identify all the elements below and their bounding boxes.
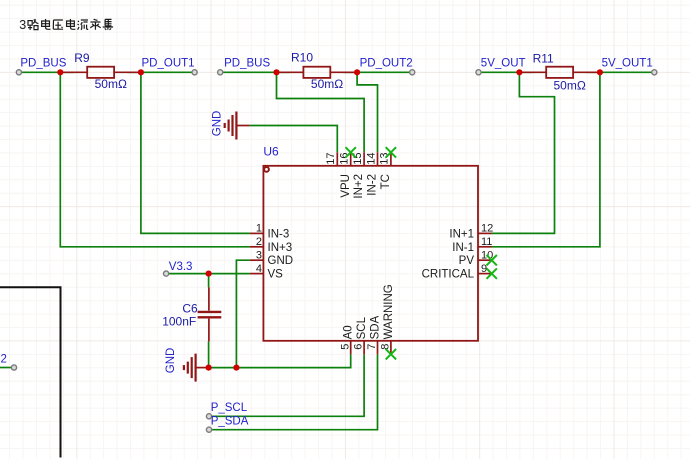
resistor R9 body	[87, 67, 114, 78]
U6 pin 13 (top)	[390, 152, 392, 166]
title char YA	[53, 20, 63, 29]
net port pin 5V_OUT	[476, 70, 481, 75]
svg-text:IN+2: IN+2	[353, 174, 365, 199]
U6 pin 3 GND (left)	[250, 259, 264, 261]
wire PD_BUS to R9 left	[19, 71, 74, 73]
svg-text:50mΩ: 50mΩ	[95, 77, 127, 91]
wire C6 bottom to ground rail	[208, 341, 210, 367]
svg-text:IN-2: IN-2	[367, 174, 379, 196]
svg-text:3: 3	[256, 249, 262, 261]
U6 pin 15 IN-2 (top)	[363, 152, 365, 166]
svg-text:GND: GND	[268, 255, 294, 267]
svg-text:12: 12	[481, 223, 493, 235]
wire PD_OUT1 down to U6 pin 1 IN-3	[141, 72, 250, 233]
wire PD_BUS down to U6 pin 2 IN+3	[60, 72, 250, 247]
resistor R10 leads	[277, 71, 358, 73]
wire partial net at left edge	[0, 367, 12, 369]
svg-text:2: 2	[256, 236, 262, 248]
wire R9 right to PD_OUT1	[128, 71, 195, 73]
U6 pin 8 WARNING (bottom)	[390, 341, 392, 355]
wire P_SDA to U6 pin 7 SDA	[209, 354, 378, 429]
svg-text:5V_OUT: 5V_OUT	[481, 58, 526, 70]
svg-text:IN-1: IN-1	[452, 242, 474, 254]
svg-text:WARNING: WARNING	[383, 284, 395, 339]
svg-text:R11: R11	[533, 51, 554, 65]
no-connect X on pin 13	[386, 147, 396, 157]
no-connect X on pin 9 CRITICAL	[487, 268, 497, 278]
net port pin 5V_OUT1	[652, 70, 657, 75]
ground symbol GND top	[225, 112, 250, 140]
U6 pin 12 IN+1 (right)	[478, 232, 492, 234]
junction PD_OUT1 / R9	[138, 69, 144, 75]
svg-text:SDA: SDA	[369, 315, 381, 339]
svg-text:PD_BUS: PD_BUS	[224, 58, 270, 70]
wire V3.3 to U6 pin 4 VS	[166, 273, 250, 275]
junction GND rail / pin3	[233, 365, 239, 371]
title char JI	[103, 19, 113, 29]
U6 pin 6 SCL (bottom)	[363, 341, 365, 355]
svg-text:P_SCL: P_SCL	[211, 402, 248, 414]
net port pin PD_OUT1	[192, 70, 197, 75]
junction GND rail / C6	[206, 365, 212, 371]
svg-text:3: 3	[19, 18, 26, 32]
svg-text:U6: U6	[263, 144, 279, 158]
title char CAI	[90, 19, 100, 30]
ground symbol GND bottom	[184, 354, 209, 382]
junction 5V_OUT / R11	[516, 69, 522, 75]
wire ground rail to U6 pin 5 A0	[209, 354, 351, 367]
capacitor C6	[198, 287, 222, 341]
svg-text:IN+1: IN+1	[449, 228, 474, 240]
svg-text:5V_OUT1: 5V_OUT1	[602, 58, 653, 70]
U6 pin 17 VPU (top)	[336, 152, 338, 166]
net port pin PD_OUT2	[410, 70, 415, 75]
svg-text:11: 11	[481, 236, 492, 248]
wire R10 right junction to U6 pin 14 TC	[357, 72, 377, 152]
U6 pin-1 indicator circle	[264, 167, 269, 172]
wire PD_BUS2 to R10 left	[220, 71, 290, 73]
svg-text:14: 14	[365, 153, 377, 165]
op-amp/IC U6 INA3221 body	[263, 166, 478, 341]
net port pin P_SCL	[206, 414, 211, 419]
title char LU	[28, 20, 38, 30]
svg-text:50mΩ: 50mΩ	[554, 78, 586, 92]
resistor R9 leads	[60, 71, 141, 73]
svg-text:6: 6	[353, 344, 365, 350]
U6 pin 16 IN+2 (top)	[350, 152, 352, 166]
no-connect X on pin 10 PV	[487, 255, 497, 265]
no-connect X on pin 8 WARNING	[386, 349, 396, 359]
wire GND to U6 pin 17 VPU	[249, 126, 337, 153]
U6 pin 1 IN-3 (left)	[250, 232, 264, 234]
title char DIAN2	[67, 19, 76, 29]
svg-text:1: 1	[256, 223, 262, 235]
U6 pin 11 IN-1 (right)	[478, 246, 492, 248]
U6 pin 7 SDA (bottom)	[377, 341, 379, 355]
junction V3.3 / C6	[206, 271, 212, 277]
wire V3.3 rail to C6 top	[208, 274, 210, 288]
wire 5V_OUT down to U6 pin 12 IN+1	[492, 72, 555, 233]
svg-text:CRITICAL: CRITICAL	[422, 269, 475, 281]
resistor R10 body	[303, 67, 330, 78]
svg-text:4: 4	[256, 263, 262, 275]
svg-text:PD_OUT1: PD_OUT1	[142, 58, 195, 70]
junction 5V_OUT1 / R11	[597, 69, 603, 75]
svg-text:VS: VS	[268, 269, 284, 281]
net port pin PD_BUS	[16, 70, 21, 75]
net port pin P_SDA	[206, 427, 211, 432]
svg-text:C6: C6	[182, 301, 198, 315]
svg-text:50mΩ: 50mΩ	[311, 77, 343, 91]
svg-text:GND: GND	[212, 111, 224, 137]
svg-text:2: 2	[1, 353, 7, 365]
U6 pin 10 PV (right)	[478, 259, 492, 261]
net port pin V3.3	[164, 271, 169, 276]
net port pin PD_BUS 2nd	[218, 70, 223, 75]
svg-text:100nF: 100nF	[162, 314, 196, 328]
svg-text:PD_BUS: PD_BUS	[20, 58, 66, 70]
U6 pin 9 CRITICAL (right)	[478, 273, 492, 275]
junction PD_OUT2 / R10	[354, 69, 360, 75]
wire 5V_OUT1 down to U6 pin 11 IN-1	[492, 72, 600, 247]
U6 pin 4 VS (left)	[250, 273, 264, 275]
U6 pin 2 IN+3 (left)	[250, 246, 264, 248]
svg-text:8: 8	[380, 344, 392, 350]
svg-text:7: 7	[366, 344, 378, 350]
svg-text:P_SDA: P_SDA	[211, 415, 249, 427]
no-connect X on pin 16 IN+2	[346, 147, 356, 157]
wire P_SCL to U6 pin 6 SCL	[209, 354, 364, 416]
wire U6 pin 3 GND down to ground rail	[236, 260, 250, 367]
svg-text:PV: PV	[459, 255, 475, 267]
wire R10 left junction to U6 pin 15 IN-2	[277, 72, 365, 152]
svg-text:GND: GND	[165, 348, 177, 374]
svg-text:A0: A0	[343, 325, 355, 339]
svg-text:V3.3: V3.3	[169, 261, 193, 273]
U6 pin 14 TC (top)	[377, 152, 379, 166]
svg-text:TC: TC	[380, 174, 392, 189]
wire 5V_OUT to R11 left	[479, 71, 533, 73]
resistor R11 leads	[519, 71, 600, 73]
sheet border rectangle corner	[0, 287, 61, 457]
title char LIU	[78, 20, 89, 30]
U6 pin 5 A0 (bottom)	[350, 341, 352, 355]
svg-text:5: 5	[339, 344, 351, 350]
svg-text:R9: R9	[74, 51, 90, 65]
wire R10 right to PD_OUT2	[344, 71, 413, 73]
svg-text:SCL: SCL	[356, 316, 368, 339]
junction PD_BUS2 / R10	[273, 69, 279, 75]
svg-text:IN+3: IN+3	[268, 242, 293, 254]
svg-text:PD_OUT2: PD_OUT2	[360, 58, 413, 70]
title char DIAN1	[42, 19, 51, 29]
svg-text:IN-3: IN-3	[268, 228, 290, 240]
wire R11 right to 5V_OUT1	[586, 71, 654, 73]
svg-text:VPU: VPU	[340, 174, 352, 198]
resistor R11 body	[546, 67, 573, 78]
svg-text:17: 17	[325, 153, 337, 165]
net port pin partial net 2	[11, 365, 16, 370]
svg-text:R10: R10	[291, 50, 313, 64]
junction PD_BUS / R9	[57, 69, 63, 75]
